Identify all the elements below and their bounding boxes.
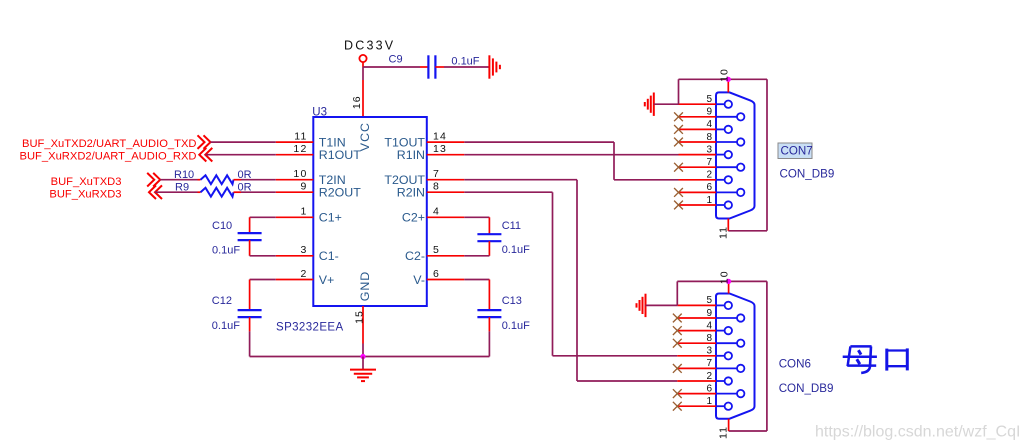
CON7 pin 10 stub [727,79,729,92]
svg-text:C1-: C1- [319,249,339,263]
svg-text:5: 5 [433,244,440,256]
CON7 shell wire top [679,78,768,80]
CON6 left vertical to pin5 [676,281,678,305]
pin name T2IN [319,173,346,187]
CON7 pin number 6 [706,182,712,193]
wire CON7 ground to pin5 [654,103,679,105]
resistor R9 [201,188,234,197]
wire pin2 to C12 [250,279,276,281]
pin number 1 [300,206,307,218]
svg-text:R1IN: R1IN [397,148,425,162]
svg-text:CON7: CON7 [781,145,813,158]
svg-text:0.1uF: 0.1uF [502,320,530,332]
wire CON6 ground to pin5 [646,304,678,306]
svg-text:10: 10 [293,168,307,180]
resistor R10 [201,175,234,184]
wire R9 to pin9 [241,191,276,193]
CON7 pin 11 stub [727,219,729,231]
svg-text:0.1uF: 0.1uF [212,245,240,257]
pin 1 stub (left) [276,216,314,218]
svg-text:C10: C10 [212,220,232,232]
pin number 2 [300,268,307,280]
designator CON6 [779,358,811,371]
ground for C9 (rotated power ground) [489,55,500,78]
svg-text:4: 4 [433,206,440,218]
wire C10 to pin3 [250,255,276,257]
pin number 4 [433,206,440,218]
label C13 [502,295,522,307]
pin 10 stub (left) [276,179,314,181]
svg-text:C1+: C1+ [319,211,342,225]
capacitor C12 [238,280,262,332]
wire port to pin12 [205,154,275,156]
CON6 pin number 6 [706,383,712,394]
svg-text:8: 8 [706,333,712,344]
svg-text:3: 3 [706,346,712,357]
CON7 pin 4 line [679,128,717,130]
CON6 pin 2 line [677,380,716,382]
svg-text:C9: C9 [389,54,403,66]
port BUF_XuTXD2 chevrons [198,135,211,149]
CON7 pin 5 line [679,103,717,105]
wire C9 to ground [444,66,489,68]
pin name C2- [405,249,425,263]
pin number 11 [294,131,307,143]
capacitor C11 [477,217,501,256]
pin name R1IN [397,148,425,162]
wire ground rail [250,356,490,358]
pin 7 stub (right) [427,179,465,181]
connector CON7 body [716,92,755,218]
resistor R10 left lead [198,179,201,181]
CON7 shell wire bottom [728,230,767,232]
wire vertical DC33V to pin16 [362,67,364,80]
CON6 pin 1 line [677,405,716,407]
svg-text:1: 1 [706,396,712,407]
svg-text:11: 11 [717,426,729,439]
svg-text:9: 9 [706,308,712,319]
pin 16 stub [362,80,364,117]
wire DC33V horizontal to C9 [363,66,420,68]
CON7 pin 3 line [679,154,717,156]
pin 4 stub (right) [427,216,465,218]
svg-text:1: 1 [706,195,712,206]
svg-text:7: 7 [433,168,440,180]
wire pin4 to C11 [464,216,489,218]
CON7 junction dot pin10 [726,77,731,82]
CON7 pin number 1 [706,195,712,206]
CON6 shell wire bottom [729,430,767,432]
CON6 shell wire top [677,280,767,282]
svg-text:8: 8 [706,132,712,143]
CON6 pin 9 line [677,317,716,319]
CON7 pin number 3 [706,144,712,155]
CON7 pin 8 line [679,141,717,143]
pin name T2OUT [384,173,425,187]
pin number 14 [433,131,447,143]
connector CON6 body [716,294,755,419]
svg-text:CON_DB9: CON_DB9 [780,168,835,181]
CON6 pin 5 line [677,304,716,306]
label C12 value 0.1uF [212,320,240,332]
pin number 7 [433,168,440,180]
svg-text:GND: GND [358,271,372,302]
no-connect X on CON6 pin 4 [673,326,682,335]
CON6 pin number 10 [718,270,730,284]
CON6 pin 6 line [677,393,716,395]
pin name R2IN [397,186,425,200]
ground for CON7 (rotated) [645,93,654,116]
ground for CON6 (rotated) [637,294,646,317]
port BUF_XuRXD2/UART_AUDIO_RXD label [20,151,197,163]
wire R2IN net [464,192,677,356]
pin number 13 [433,143,447,155]
pin name VCC [358,122,372,151]
wire T2OUT net [464,180,677,381]
no-connect X on CON7 pin 7 [674,163,683,172]
no-connect X on CON7 pin 8 [674,138,683,147]
svg-text:V+: V+ [319,273,335,287]
label C11 value 0.1uF [502,244,530,256]
svg-text:14: 14 [433,131,447,143]
CON7 pin number 8 [706,132,712,143]
pin number 8 [433,181,440,193]
svg-text:SP3232EEA: SP3232EEA [276,322,344,334]
svg-text:C2+: C2+ [402,211,425,225]
pin name C2+ [402,211,425,225]
CON6 pin number 8 [706,333,712,344]
pin name T1IN [319,135,346,149]
designator U3 [312,106,327,118]
svg-text:8: 8 [433,181,440,193]
label CON_DB9 (CON6) [779,382,834,395]
wire port to R10 [160,179,197,181]
svg-text:BUF_XuTXD3: BUF_XuTXD3 [51,176,122,188]
no-connect X on CON6 pin 9 [673,314,682,323]
svg-text:V-: V- [413,273,425,287]
svg-text:0.1uF: 0.1uF [212,320,240,332]
CON6 pin 7 line [677,367,716,369]
pin number 10 [293,168,307,180]
CON7 pin number 7 [706,157,712,168]
svg-text:C11: C11 [502,220,521,232]
CON7 pin number 11 [718,226,730,239]
svg-text:R2OUT: R2OUT [319,186,361,200]
label SP3232EEA [276,322,344,334]
svg-text:C2-: C2- [405,249,425,263]
wire C12 to rail [249,331,251,356]
svg-text:BUF_XuRXD3: BUF_XuRXD3 [49,188,121,200]
svg-text:7: 7 [706,358,712,369]
svg-text:BUF_XuRXD2/UART_AUDIO_RXD: BUF_XuRXD2/UART_AUDIO_RXD [20,151,197,163]
wire port to pin11 [211,141,276,143]
CON7 pin 7 line [679,166,717,168]
pin number 12 [293,143,307,155]
CON7 pin 6 line [679,191,717,193]
svg-text:1: 1 [300,206,307,218]
watermark text [815,424,1020,441]
pin 13 stub (right) [427,154,465,156]
wire pin15 to rail [362,344,364,357]
svg-text:13: 13 [433,143,447,155]
svg-text:6: 6 [706,182,712,193]
wire C13 to rail [488,331,490,356]
no-connect X on CON7 pin 9 [674,112,683,121]
pin name V- [413,273,425,287]
CON6 pin number 11 [717,426,729,439]
pin name C1+ [319,211,342,225]
svg-text:10: 10 [718,68,730,82]
pin number 15 [354,310,366,324]
resistor R9 left lead [198,191,201,193]
annotation 口 (port) [886,348,909,370]
pin name T1OUT [384,135,425,149]
label CON_DB9 (CON7) [780,168,835,181]
label R9 [175,182,189,194]
power port DC33V label [344,39,395,53]
label C9 [389,54,403,66]
CON7 pin number 10 [718,68,730,82]
junction at GND rail [360,354,365,359]
svg-text:4: 4 [706,119,712,130]
pin number 3 [300,244,307,256]
CON6 pin number 9 [706,308,712,319]
CON6 pin number 7 [706,358,712,369]
svg-text:6: 6 [706,383,712,394]
svg-text:4: 4 [706,320,712,331]
wire T1OUT net [464,142,678,180]
op-amp/transceiver chip U3 body [313,117,427,306]
pin 14 stub (right) [427,141,465,143]
svg-text:DC33V: DC33V [344,39,395,53]
label R10 value 0R [238,169,252,181]
svg-text:11: 11 [294,131,307,143]
port BUF_XuRXD3 chevrons [149,185,162,199]
CON6 pin number 1 [706,396,712,407]
pin 15 stub [362,306,364,344]
label C12 [212,295,232,307]
CON7 pin 9 line [679,116,717,118]
pin 3 stub (left) [276,255,314,257]
pin 5 stub (right) [427,255,465,257]
pin number 9 [300,181,307,193]
pin name C1- [319,249,339,263]
pin 9 stub (left) [276,191,314,193]
svg-text:R10: R10 [174,169,194,181]
annotation 母 (female) [843,346,877,373]
CON7 pin 2 line [679,179,717,181]
CON6 pin number 4 [706,320,712,331]
CON6 pin 3 line [677,355,716,357]
wire C11 to pin5 [464,255,489,257]
no-connect X on CON7 pin 6 [674,188,683,197]
capacitor C9 [420,55,444,78]
no-connect X on CON6 pin 1 [673,402,682,411]
CON6 pin number 2 [706,371,712,382]
capacitor C13 [477,280,501,332]
resistor R10 right lead [234,179,242,181]
svg-text:CON_DB9: CON_DB9 [779,382,834,395]
wire pin1 to C10 [250,216,276,218]
svg-text:9: 9 [300,181,307,193]
port BUF_XuRXD3 label [49,188,121,200]
pin number 6 [433,268,440,280]
label C13 value 0.1uF [502,320,530,332]
CON7 designator highlight box [778,143,812,159]
svg-text:5: 5 [706,295,712,306]
label R10 [174,169,194,181]
svg-text:0.1uF: 0.1uF [502,244,530,256]
port BUF_XuTXD3 chevrons [147,173,160,187]
no-connect X on CON7 pin 1 [674,201,683,210]
label C11 [502,220,521,232]
svg-text:C12: C12 [212,295,232,307]
svg-text:11: 11 [718,226,730,239]
pin 8 stub (right) [427,191,465,193]
CON6 pin number 3 [706,346,712,357]
resistor R9 right lead [234,191,242,193]
svg-text:2: 2 [706,170,712,181]
pin 2 stub (left) [276,279,314,281]
wire port to R9 [155,191,198,193]
svg-text:10: 10 [718,270,730,284]
CON6 pin 11 stub [728,419,730,431]
svg-text:2: 2 [706,371,712,382]
CON7 pin number 5 [706,94,712,105]
svg-text:5: 5 [706,94,712,105]
svg-text:U3: U3 [312,106,327,118]
svg-text:3: 3 [706,144,712,155]
port BUF_XuTXD2/UART_AUDIO_TXD label [22,138,197,150]
CON6 pin 8 line [677,342,716,344]
svg-text:VCC: VCC [358,122,372,151]
pin 11 stub (left) [276,141,314,143]
svg-text:3: 3 [300,244,307,256]
CON6 pin number 5 [706,295,712,306]
svg-text:BUF_XuTXD2/UART_AUDIO_TXD: BUF_XuTXD2/UART_AUDIO_TXD [22,138,197,150]
pin 12 stub (left) [276,154,314,156]
power port DC33V circle [359,55,366,67]
CON7 left vertical to pin5 [678,79,680,104]
wire pin6 to C13 [464,279,489,281]
connector CON7 holes [716,101,744,209]
no-connect X on CON6 pin 6 [673,389,682,398]
CON6 pin 10 stub [728,281,730,293]
svg-text:15: 15 [354,310,366,324]
svg-text:R2IN: R2IN [397,186,425,200]
capacitor C10 [238,217,262,256]
svg-text:9: 9 [706,107,712,118]
svg-text:CON6: CON6 [779,358,811,371]
label C9 value 0.1uF [451,56,479,68]
CON7 pin number 4 [706,119,712,130]
CON6 junction dot pin10 [726,279,731,284]
pin number 5 [433,244,440,256]
no-connect X on CON6 pin 7 [673,364,682,373]
pin name R2OUT [319,186,361,200]
svg-text:0.1uF: 0.1uF [451,56,479,68]
svg-text:R1OUT: R1OUT [319,148,361,162]
pin number 16 [351,95,363,109]
no-connect X on CON6 pin 8 [673,339,682,348]
pin name GND [358,271,372,302]
svg-text:R9: R9 [175,182,189,194]
CON7 shell wire right [766,79,768,231]
svg-text:C13: C13 [502,295,522,307]
port BUF_XuRXD2 chevrons [199,148,212,162]
ground symbol below rail [350,357,376,382]
designator CON7 [781,145,813,158]
CON7 pin number 2 [706,170,712,181]
svg-text:6: 6 [433,268,440,280]
port BUF_XuTXD3 label [51,176,122,188]
svg-text:12: 12 [293,143,307,155]
pin name R1OUT [319,148,361,162]
pin name V+ [319,273,335,287]
pin 6 stub (right) [427,279,465,281]
CON6 shell wire right [766,281,768,431]
svg-text:16: 16 [351,95,363,109]
svg-text:2: 2 [300,268,307,280]
wire R1IN net [464,154,678,156]
CON7 pin 1 line [679,204,717,206]
no-connect X on CON7 pin 4 [674,125,683,134]
CON6 pin 4 line [677,330,716,332]
connector CON6 holes [716,302,744,410]
label C10 [212,220,232,232]
label R9 value 0R [238,182,252,194]
svg-text:7: 7 [706,157,712,168]
CON7 pin number 9 [706,107,712,118]
svg-text:https://blog.csdn.net/wzf_CqI: https://blog.csdn.net/wzf_CqI [815,424,1020,441]
label C10 value 0.1uF [212,245,240,257]
wire R10 to pin10 [241,179,276,181]
